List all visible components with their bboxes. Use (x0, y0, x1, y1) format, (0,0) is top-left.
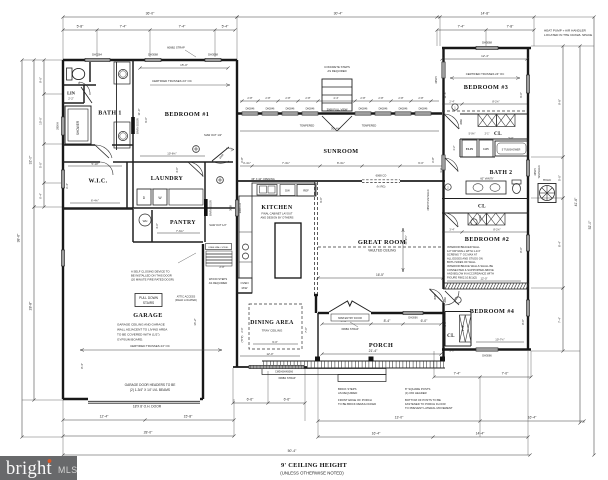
svg-text:HVAC: HVAC (543, 178, 552, 182)
svg-text:9'-6": 9'-6" (38, 77, 42, 83)
svg-text:BEDROOM #2: BEDROOM #2 (465, 236, 509, 243)
svg-text:(4) 0X0 HEADER: (4) 0X0 HEADER (405, 391, 427, 395)
svg-text:M/W: M/W (242, 286, 248, 290)
svg-text:5'-10": 5'-10" (91, 162, 98, 166)
svg-text:2'-2": 2'-2" (453, 145, 456, 150)
svg-text:SUNROOM: SUNROOM (323, 148, 358, 155)
svg-text:DH2846: DH2846 (419, 107, 428, 110)
svg-text:4'-4": 4'-4" (333, 96, 338, 100)
svg-text:8'-6": 8'-6" (519, 247, 523, 253)
svg-text:2850H: 2850H (56, 122, 60, 130)
svg-text:2'-8": 2'-8" (360, 96, 365, 100)
svg-text:3068: 3068 (229, 205, 233, 211)
svg-text:(2) 1-3/4" X 14" LVL BEAMS: (2) 1-3/4" X 14" LVL BEAMS (130, 388, 170, 392)
svg-text:DH3066: DH3066 (482, 354, 492, 358)
svg-text:INTERIOR BRACED WALL: INTERIOR BRACED WALL (447, 245, 480, 249)
svg-text:AND BELOW IN ACCORDANCE WITH: AND BELOW IN ACCORDANCE WITH (447, 272, 494, 276)
svg-text:15'-8": 15'-8" (184, 415, 193, 419)
svg-text:6068: 6068 (479, 215, 482, 221)
svg-text:AS REQUIRED: AS REQUIRED (327, 69, 346, 73)
svg-text:7'-4": 7'-4" (557, 317, 561, 323)
svg-text:30'-4": 30'-4" (334, 12, 343, 16)
svg-text:6068Ω STRAP: 6068Ω STRAP (167, 46, 185, 50)
svg-text:1/2" DRYWALL WITH 1-1/4": 1/2" DRYWALL WITH 1-1/4" (447, 249, 481, 253)
svg-text:9'-0": 9'-0" (319, 197, 323, 203)
svg-text:3'-4": 3'-4" (449, 227, 454, 231)
svg-text:7'-0": 7'-0" (502, 372, 510, 376)
svg-text:16'-9½": 16'-9½" (404, 235, 408, 244)
svg-text:6068Ω STRAP: 6068Ω STRAP (278, 376, 295, 380)
svg-text:KNEE WALL STEEL: KNEE WALL STEEL (209, 246, 230, 249)
svg-text:7'-4": 7'-4" (120, 25, 128, 29)
svg-text:30'-4¾": 30'-4¾" (331, 127, 341, 131)
svg-text:SCREWS 7" OC MAX AT: SCREWS 7" OC MAX AT (447, 253, 478, 257)
svg-text:GREAT ROOM: GREAT ROOM (358, 239, 406, 246)
svg-text:6'-8": 6'-8" (431, 157, 435, 163)
svg-text:5'-8": 5'-8" (77, 25, 85, 29)
svg-text:2'-8": 2'-8" (378, 96, 383, 100)
svg-text:AS REQUIRED: AS REQUIRED (209, 281, 228, 285)
svg-text:(20 MINUTE FIRE RATED DOOR): (20 MINUTE FIRE RATED DOOR) (131, 278, 174, 282)
svg-text:11'-4": 11'-4" (137, 109, 141, 116)
svg-text:12'-4": 12'-4" (100, 415, 109, 419)
svg-text:6068Ω STRAP: 6068Ω STRAP (341, 327, 358, 331)
svg-text:LIN: LIN (483, 147, 489, 151)
svg-text:ATTIC ACCESS: ATTIC ACCESS (177, 295, 196, 299)
svg-text:10'-6": 10'-6" (38, 117, 42, 125)
svg-text:TRAY CEILING: TRAY CEILING (262, 329, 283, 333)
svg-text:6'-6": 6'-6" (284, 398, 292, 402)
svg-text:6'-0": 6'-0" (421, 319, 429, 323)
svg-text:2'-0": 2'-0" (450, 350, 455, 353)
svg-text:16'-4": 16'-4" (528, 416, 537, 420)
svg-text:21'-4": 21'-4" (369, 349, 378, 353)
svg-text:18'X 8' O.H. DOOR: 18'X 8' O.H. DOOR (133, 405, 162, 409)
svg-text:7'-3¼": 7'-3¼" (282, 161, 290, 165)
svg-text:TEMPERED: TEMPERED (300, 124, 315, 128)
svg-text:VAULTED CEILING: VAULTED CEILING (368, 249, 396, 253)
svg-text:DH3068: DH3068 (148, 53, 158, 57)
svg-text:12'-4": 12'-4" (481, 54, 489, 58)
svg-text:8'-2¾": 8'-2¾" (493, 227, 500, 231)
svg-text:PORCH: PORCH (369, 342, 393, 349)
svg-text:BARN DOOR: BARN DOOR (136, 118, 140, 134)
svg-text:15'-0": 15'-0" (180, 63, 188, 67)
svg-text:9'-6": 9'-6" (144, 117, 148, 123)
svg-text:13'-0": 13'-0" (395, 416, 404, 420)
svg-text:11'-6": 11'-6" (443, 92, 447, 99)
svg-text:SHOWER: SHOWER (76, 120, 80, 135)
svg-text:CL: CL (478, 204, 486, 210)
svg-text:BEDROOM #4: BEDROOM #4 (470, 308, 514, 315)
svg-text:PANTRY: PANTRY (170, 220, 196, 226)
svg-text:7'-6¾": 7'-6¾" (176, 229, 184, 233)
svg-text:DH2846: DH2846 (379, 107, 388, 110)
svg-text:3068 CO: 3068 CO (238, 203, 242, 213)
svg-text:REF: REF (303, 189, 309, 193)
svg-text:TEMPERED: TEMPERED (362, 124, 377, 128)
svg-text:AS REQUIRED: AS REQUIRED (338, 391, 357, 395)
svg-text:2'-0": 2'-0" (444, 321, 447, 326)
svg-text:3'-0": 3'-0" (175, 167, 179, 173)
svg-text:(¼ RG): (¼ RG) (377, 185, 386, 189)
svg-text:36'-0": 36'-0" (146, 12, 155, 16)
svg-text:INTERIOR BRACE WALLS SHALL BE: INTERIOR BRACE WALLS SHALL BE (447, 264, 493, 268)
svg-text:CERTIFIED TRUSSES 24" OC: CERTIFIED TRUSSES 24" OC (130, 344, 170, 348)
svg-text:2868: 2868 (460, 119, 463, 125)
svg-text:4'-6": 4'-6" (155, 223, 159, 229)
svg-text:WALL ADJACENT TO LIVING AREA: WALL ADJACENT TO LIVING AREA (117, 328, 168, 332)
svg-text:2850H TEMPERED: 2850H TEMPERED (427, 189, 430, 210)
svg-text:LIN: LIN (67, 91, 76, 96)
svg-text:28'-8": 28'-8" (28, 301, 32, 310)
svg-text:CONNECTED & SUPPORTED ABOVE: CONNECTED & SUPPORTED ABOVE (447, 268, 494, 272)
svg-text:5' TUB/SHOWER: 5' TUB/SHOWER (502, 149, 521, 152)
svg-text:3068: 3068 (434, 294, 437, 300)
svg-text:14'-4": 14'-4" (476, 432, 485, 436)
svg-text:DINING AREA: DINING AREA (250, 320, 294, 326)
svg-text:LAUNDRY: LAUNDRY (151, 176, 184, 182)
svg-text:(UNLESS OTHERWISE NOTED): (UNLESS OTHERWISE NOTED) (280, 471, 344, 476)
svg-text:(FIELD LOCATED): (FIELD LOCATED) (175, 298, 197, 302)
svg-text:6'-6": 6'-6" (247, 398, 255, 402)
svg-text:TO BE BRICK REMULOCKED: TO BE BRICK REMULOCKED (338, 402, 376, 406)
svg-text:2'-0": 2'-0" (240, 327, 244, 332)
svg-text:TEMPERED: TEMPERED (538, 165, 541, 179)
svg-text:9'-8": 9'-8" (557, 99, 561, 105)
svg-text:SHW OUT 1/2": SHW OUT 1/2" (209, 223, 227, 227)
svg-text:FIGURE R602.10.8(1)(2): FIGURE R602.10.8(1)(2) (447, 275, 477, 279)
svg-text:BOTH SIDES OF WALL: BOTH SIDES OF WALL (447, 260, 476, 264)
svg-text:6068 CO: 6068 CO (376, 174, 387, 178)
svg-text:7'-8": 7'-8" (507, 25, 515, 29)
svg-text:KITCHEN: KITCHEN (261, 205, 292, 211)
svg-text:2'-8": 2'-8" (305, 96, 310, 100)
svg-text:CERTIFIED TRUSSES 24" OC: CERTIFIED TRUSSES 24" OC (466, 72, 505, 76)
svg-text:8'-0": 8'-0" (521, 319, 525, 325)
svg-text:DH2846: DH2846 (306, 107, 315, 110)
svg-text:2'-0": 2'-0" (219, 265, 224, 269)
svg-text:LOCATED IN THE CRAWL SPACE: LOCATED IN THE CRAWL SPACE (544, 33, 592, 37)
svg-text:MLS: MLS (58, 465, 78, 475)
svg-text:5'-0": 5'-0" (38, 162, 42, 168)
svg-text:6'-4": 6'-4" (65, 183, 69, 189)
svg-text:CMDH3HX6066: CMDH3HX6066 (275, 370, 294, 373)
svg-text:2'-8": 2'-8" (247, 96, 252, 100)
svg-text:5'-4": 5'-4" (222, 25, 230, 29)
svg-text:STAIRS: STAIRS (143, 301, 154, 305)
svg-text:8'-2¾": 8'-2¾" (492, 99, 499, 103)
svg-text:10'-6¾": 10'-6¾" (167, 152, 176, 156)
svg-text:TO BE COVERED WITH (1/2"): TO BE COVERED WITH (1/2") (117, 333, 159, 337)
svg-text:BEDROOM #3: BEDROOM #3 (464, 84, 508, 91)
svg-text:CL: CL (447, 334, 455, 339)
svg-text:8'-4": 8'-4" (384, 319, 392, 323)
svg-text:5'-0": 5'-0" (509, 137, 514, 140)
svg-text:2'-8": 2'-8" (265, 96, 270, 100)
svg-text:PULL DOWN: PULL DOWN (139, 296, 159, 300)
svg-text:12'-0": 12'-0" (480, 277, 487, 281)
svg-text:9' CEILING HEIGHT: 9' CEILING HEIGHT (281, 462, 348, 469)
svg-text:GARAGE CEILING AND GARAGE: GARAGE CEILING AND GARAGE (117, 323, 165, 327)
svg-text:2850H: 2850H (435, 76, 438, 83)
svg-text:36" X 44" OPENING: 36" X 44" OPENING (251, 177, 274, 181)
svg-text:DH2846: DH2846 (286, 107, 295, 110)
svg-text:DH3068: DH3068 (208, 53, 218, 57)
svg-text:2'-4": 2'-4" (449, 99, 454, 103)
svg-text:8'-3¼": 8'-3¼" (337, 161, 345, 165)
svg-text:bright: bright (6, 459, 53, 479)
svg-text:BATH 2: BATH 2 (490, 170, 513, 176)
svg-text:50'-4": 50'-4" (288, 449, 297, 453)
svg-text:16'-5": 16'-5" (376, 273, 384, 277)
svg-text:2850H: 2850H (534, 168, 537, 175)
svg-text:2'-8": 2'-8" (418, 96, 423, 100)
svg-text:3'-0": 3'-0" (439, 167, 443, 172)
svg-text:TO PREVENT LATERAL MOVEMENT: TO PREVENT LATERAL MOVEMENT (405, 406, 453, 410)
svg-text:OVEN: OVEN (241, 281, 249, 285)
svg-text:6'-4¾": 6'-4¾" (91, 199, 99, 203)
svg-text:ELIN: ELIN (466, 147, 474, 151)
svg-text:DW: DW (285, 189, 290, 193)
svg-text:WOOD STEPS: WOOD STEPS (209, 277, 227, 281)
svg-text:BARN DOOR: BARN DOOR (209, 200, 213, 216)
svg-text:2'-8": 2'-8" (285, 96, 290, 100)
svg-text:9'-0": 9'-0" (272, 340, 278, 344)
svg-text:7'-4": 7'-4" (179, 25, 187, 29)
svg-text:16'-4": 16'-4" (372, 432, 381, 436)
svg-text:9'-6": 9'-6" (519, 92, 523, 98)
svg-text:(TYP): (TYP) (240, 335, 244, 342)
svg-text:5'-0": 5'-0" (557, 175, 561, 181)
svg-text:CL: CL (494, 131, 502, 137)
svg-text:CERTIFIED TRUSSES 24" OC: CERTIFIED TRUSSES 24" OC (152, 79, 192, 83)
svg-text:2'-1": 2'-1" (485, 133, 490, 136)
svg-text:12'-0": 12'-0" (266, 352, 273, 356)
svg-text:38'-6": 38'-6" (17, 233, 21, 242)
svg-text:DH3066: DH3066 (408, 317, 418, 320)
svg-text:6'-4": 6'-4" (38, 193, 42, 199)
svg-text:GARAGE: GARAGE (133, 312, 163, 319)
svg-text:W.I.C.: W.I.C. (88, 179, 107, 185)
svg-text:7'-4": 7'-4" (458, 25, 466, 29)
svg-text:BATH 1: BATH 1 (98, 111, 121, 117)
svg-text:8'-4": 8'-4" (80, 363, 84, 369)
svg-text:2'-2": 2'-2" (68, 97, 74, 101)
svg-text:2868: 2868 (444, 297, 447, 303)
svg-text:7'-4": 7'-4" (454, 372, 462, 376)
svg-text:8'-4": 8'-4" (557, 241, 561, 247)
svg-text:2'-10": 2'-10" (462, 325, 465, 331)
svg-text:BEDROOM #1: BEDROOM #1 (165, 111, 209, 118)
svg-text:14'-8": 14'-8" (481, 12, 490, 16)
svg-text:41'-6": 41'-6" (574, 197, 578, 206)
svg-text:ALL EDGES AND STUDS ON: ALL EDGES AND STUDS ON (447, 256, 483, 260)
svg-text:DH2846: DH2846 (266, 107, 275, 110)
svg-text:28'-0": 28'-0" (144, 431, 153, 435)
svg-text:AND DESIGN BY OTHERS: AND DESIGN BY OTHERS (261, 216, 294, 220)
svg-text:16'-2": 16'-2" (193, 318, 197, 325)
svg-text:DH3068: DH3068 (482, 41, 492, 45)
svg-text:DH3264: DH3264 (92, 53, 102, 57)
svg-text:FINAL CABINET LAYOUT: FINAL CABINET LAYOUT (261, 212, 293, 216)
svg-text:10'-7¾": 10'-7¾" (495, 338, 504, 342)
svg-text:5'-0¾": 5'-0¾" (469, 133, 476, 136)
svg-text:2'-8": 2'-8" (398, 96, 403, 100)
svg-text:60" VANITY: 60" VANITY (480, 178, 494, 181)
svg-text:GARAGE DOOR HEADERS TO BE: GARAGE DOOR HEADERS TO BE (125, 383, 176, 387)
svg-text:DH2846: DH2846 (399, 107, 408, 110)
svg-text:DH2846: DH2846 (246, 107, 255, 110)
svg-text:4'-4¾": 4'-4¾" (243, 161, 251, 165)
svg-text:6'-0": 6'-0" (418, 161, 424, 165)
svg-text:32'-0": 32'-0" (28, 155, 32, 164)
svg-text:GYPSUM BOARD.: GYPSUM BOARD. (117, 338, 143, 342)
svg-text:DH2846: DH2846 (359, 107, 368, 110)
svg-text:7'-0": 7'-0" (304, 327, 308, 333)
svg-text:52'-0": 52'-0" (588, 220, 592, 229)
svg-text:SHW OUT 1/2": SHW OUT 1/2" (204, 133, 222, 137)
svg-text:6068 ENTRY DOOR: 6068 ENTRY DOOR (338, 316, 362, 320)
svg-text:WH: WH (143, 219, 148, 223)
